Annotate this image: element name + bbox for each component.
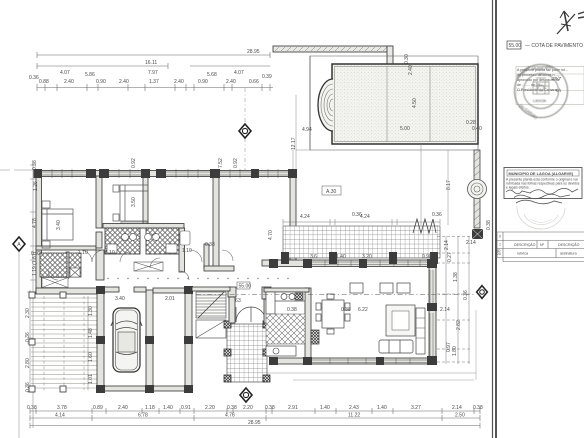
svg-text:1.26: 1.26 xyxy=(33,181,39,191)
wall stub below x96 wall xyxy=(96,232,102,248)
dining table xyxy=(316,294,350,334)
svg-text:1.30: 1.30 xyxy=(88,306,94,316)
certificate box behind stamp xyxy=(516,67,584,105)
pool deck outline xyxy=(310,56,478,150)
svg-text:0.36: 0.36 xyxy=(29,75,39,81)
svg-text:0.91: 0.91 xyxy=(181,405,191,411)
svg-text:e legais efeitos.: e legais efeitos. xyxy=(506,186,530,190)
south wall of left rooms xyxy=(36,288,104,294)
svg-text:6.22: 6.22 xyxy=(358,307,368,313)
svg-text:1.80: 1.80 xyxy=(452,346,458,356)
east fence xyxy=(474,150,480,228)
svg-text:— COTA DE PAVIMENTO: — COTA DE PAVIMENTO xyxy=(525,43,583,49)
svg-text:0.38: 0.38 xyxy=(205,242,215,248)
svg-text:2.43: 2.43 xyxy=(349,405,359,411)
svg-text:rubrica: rubrica xyxy=(517,252,528,256)
carport slats xyxy=(31,298,97,388)
svg-text:3.40: 3.40 xyxy=(115,296,125,302)
roof dotted line over entry band xyxy=(107,278,288,279)
top dimension chain xyxy=(37,52,273,91)
svg-text:0.38: 0.38 xyxy=(287,307,297,313)
svg-text:2.14: 2.14 xyxy=(452,405,462,411)
svg-text:Nº: Nº xyxy=(540,243,545,247)
svg-text:2.30: 2.30 xyxy=(25,308,31,318)
pool apse steps xyxy=(318,79,333,131)
faint stamp arc below xyxy=(517,206,565,229)
svg-text:5.00: 5.00 xyxy=(400,126,410,132)
svg-text:4.94: 4.94 xyxy=(302,127,312,133)
svg-text:0.40: 0.40 xyxy=(472,126,482,132)
svg-text:55.00: 55.00 xyxy=(509,43,522,49)
svg-text:1.37: 1.37 xyxy=(149,79,159,85)
svg-text:0: 0 xyxy=(499,235,501,239)
wardrobe X-box below baths xyxy=(134,262,163,271)
svg-text:0.89: 0.89 xyxy=(93,405,103,411)
wall x178-184 xyxy=(179,228,185,272)
svg-text:1.10: 1.10 xyxy=(78,250,88,256)
wall x143 bedroom2 left xyxy=(143,176,148,228)
bed bedroom1 xyxy=(42,201,73,248)
fence post dark xyxy=(472,229,483,239)
svg-text:20: 20 xyxy=(497,252,501,256)
svg-text:1.40: 1.40 xyxy=(336,254,346,260)
svg-text:0.66: 0.66 xyxy=(249,79,259,85)
top wall columns xyxy=(34,169,298,178)
title table xyxy=(497,232,584,262)
living rug/table xyxy=(386,305,415,336)
wall x213 xyxy=(213,176,219,268)
svg-text:11.22: 11.22 xyxy=(348,413,360,419)
car xyxy=(111,308,142,372)
side tables top xyxy=(380,283,393,293)
svg-text:2.80: 2.80 xyxy=(25,358,31,368)
svg-text:0.27: 0.27 xyxy=(447,252,453,262)
corridor door arcs xyxy=(48,250,233,280)
bathroom left hatch xyxy=(40,253,67,277)
marker node B bottom xyxy=(240,388,252,402)
svg-text:3.27: 3.27 xyxy=(411,405,421,411)
svg-text:4.14: 4.14 xyxy=(55,413,65,419)
svg-text:5.86: 5.86 xyxy=(85,72,95,78)
kitchen floor hatch xyxy=(266,314,305,344)
svg-text:0.38: 0.38 xyxy=(27,405,37,411)
carport posts xyxy=(29,292,66,392)
A.30 label xyxy=(322,186,341,195)
stairs xyxy=(196,292,226,318)
svg-text:4.50: 4.50 xyxy=(412,98,418,108)
closet hatch left2 xyxy=(69,253,81,277)
svg-text:1.38: 1.38 xyxy=(453,272,459,282)
svg-text:4.24: 4.24 xyxy=(360,214,370,220)
ramp below stairs xyxy=(196,320,226,338)
svg-text:2.14: 2.14 xyxy=(466,240,476,246)
svg-text:0.92: 0.92 xyxy=(233,158,239,168)
svg-text:1.10: 1.10 xyxy=(182,248,192,254)
pool dimension texts xyxy=(291,54,482,190)
pool xyxy=(318,64,478,144)
svg-text:assinatura: assinatura xyxy=(560,252,577,256)
cota de pavimento label xyxy=(507,41,521,49)
stamp crest xyxy=(533,75,549,94)
svg-text:3.50: 3.50 xyxy=(131,197,137,207)
shower X small xyxy=(70,268,80,277)
svg-text:0.98: 0.98 xyxy=(422,254,432,260)
svg-text:3.40: 3.40 xyxy=(56,220,62,230)
svg-text:8.17: 8.17 xyxy=(446,180,452,190)
sofa xyxy=(379,340,413,353)
svg-text:0.38: 0.38 xyxy=(265,405,275,411)
marker node B top xyxy=(239,124,251,138)
svg-text:1.40: 1.40 xyxy=(163,405,173,411)
svg-text:MUNICIPIO DE LAGOA (ALGARVE): MUNICIPIO DE LAGOA (ALGARVE) xyxy=(509,171,574,176)
svg-text:1: 1 xyxy=(499,243,501,247)
living top wall xyxy=(264,260,436,364)
svg-text:0.38: 0.38 xyxy=(227,405,237,411)
svg-text:4.76: 4.76 xyxy=(225,413,235,419)
svg-text:1.10: 1.10 xyxy=(105,250,115,256)
svg-text:16.11: 16.11 xyxy=(145,60,157,66)
fireplace xyxy=(311,330,319,344)
round stamp xyxy=(515,64,568,120)
svg-text:2.40: 2.40 xyxy=(226,79,236,85)
section line to right marker xyxy=(196,294,474,296)
entry double door xyxy=(236,307,266,322)
carport dashed verticals xyxy=(44,296,84,390)
svg-text:DESCRIÇÃO: DESCRIÇÃO xyxy=(514,242,536,247)
svg-text:DESCRIÇÃO: DESCRIÇÃO xyxy=(558,242,580,247)
north arrow xyxy=(557,11,584,34)
certificate text behind stamp xyxy=(517,68,568,92)
svg-text:4.70: 4.70 xyxy=(268,230,274,240)
svg-text:2.50: 2.50 xyxy=(455,413,465,419)
svg-text:2.82: 2.82 xyxy=(456,320,462,330)
stairs zigzag garden xyxy=(413,219,436,233)
dim extension lines mid xyxy=(0,88,448,438)
svg-text:0.36: 0.36 xyxy=(432,212,442,218)
svg-text:2.40: 2.40 xyxy=(174,79,184,85)
svg-text:2.01: 2.01 xyxy=(165,296,175,302)
svg-text:0.38: 0.38 xyxy=(341,307,351,313)
cabinet right xyxy=(416,308,425,354)
left vertical dim chain xyxy=(27,165,36,428)
svg-text:LAGOA: LAGOA xyxy=(533,99,547,103)
municipality box xyxy=(504,168,582,204)
wall x290 right of wing xyxy=(290,170,296,262)
entry hall walls xyxy=(192,287,271,323)
wardrobe X-box left wing xyxy=(42,278,68,288)
55.00 level box xyxy=(237,282,250,289)
svg-text:2.91: 2.91 xyxy=(288,405,298,411)
svg-text:2.20: 2.20 xyxy=(243,405,253,411)
marker node A left xyxy=(13,237,25,251)
courtyard posts xyxy=(224,321,270,382)
svg-text:1.60: 1.60 xyxy=(88,352,94,362)
svg-text:2.40: 2.40 xyxy=(119,79,129,85)
garage inner dim chain xyxy=(87,296,89,390)
svg-text:55.00: 55.00 xyxy=(239,284,252,290)
fountain xyxy=(468,180,487,199)
sinks in central bath xyxy=(107,234,177,253)
svg-text:1.01: 1.01 xyxy=(88,374,94,384)
svg-text:3.78: 3.78 xyxy=(57,405,67,411)
svg-text:0.90: 0.90 xyxy=(96,79,106,85)
svg-text:A.30: A.30 xyxy=(326,189,337,195)
svg-text:0.92: 0.92 xyxy=(131,158,137,168)
svg-text:1.48: 1.48 xyxy=(88,328,94,338)
svg-text:1.18: 1.18 xyxy=(145,405,155,411)
garden boundary wall top xyxy=(273,46,393,64)
bed bedroom2 xyxy=(113,185,148,221)
central bathroom hatch 2 xyxy=(146,228,179,254)
svg-text:7.52: 7.52 xyxy=(218,158,224,168)
wall x96 xyxy=(96,176,102,228)
living wall columns xyxy=(269,259,437,365)
top wall xyxy=(36,171,296,177)
svg-text:2.14: 2.14 xyxy=(440,307,450,313)
left wall xyxy=(36,171,42,294)
svg-text:0.38: 0.38 xyxy=(486,220,492,230)
svg-text:4.78: 4.78 xyxy=(32,218,38,228)
pergola top dim xyxy=(283,219,440,225)
south paving lines xyxy=(267,310,476,380)
svg-text:3.6: 3.6 xyxy=(310,254,317,260)
svg-text:2.20: 2.20 xyxy=(205,405,215,411)
svg-text:2.40: 2.40 xyxy=(408,65,414,75)
svg-text:0.38: 0.38 xyxy=(32,160,38,170)
toilet white xyxy=(180,231,190,245)
svg-text:0.36: 0.36 xyxy=(463,290,469,300)
svg-text:28.95: 28.95 xyxy=(248,420,261,426)
bath north wall xyxy=(103,224,184,229)
svg-text:0.88: 0.88 xyxy=(39,79,49,85)
corridor south walls left part xyxy=(36,246,96,250)
bath divider left xyxy=(66,252,69,278)
garage columns dark xyxy=(96,286,193,393)
central bathroom hatch 1 xyxy=(105,228,140,254)
svg-text:7.97: 7.97 xyxy=(148,70,158,76)
pergola posts xyxy=(281,252,438,264)
page edge double line xyxy=(493,0,497,438)
svg-text:28.95: 28.95 xyxy=(247,49,260,55)
wardrobe bedroom2 xyxy=(121,222,147,228)
svg-text:2.14: 2.14 xyxy=(444,240,450,250)
window mullion lines in top wall xyxy=(42,169,288,178)
svg-text:1.40: 1.40 xyxy=(320,405,330,411)
svg-text:4.07: 4.07 xyxy=(60,70,70,76)
garage walls xyxy=(97,287,192,392)
marker node right xyxy=(477,286,488,299)
right dim chain xyxy=(437,236,470,364)
courtyard grid xyxy=(227,324,267,382)
living window mullions xyxy=(312,260,433,365)
svg-text:1.19 (1.81): 1.19 (1.81) xyxy=(32,251,38,276)
svg-text:0.30: 0.30 xyxy=(404,54,410,64)
svg-text:0.90: 0.90 xyxy=(198,79,208,85)
svg-text:2.40: 2.40 xyxy=(64,79,74,85)
svg-text:5.68: 5.68 xyxy=(207,72,217,78)
svg-text:3.20: 3.20 xyxy=(362,254,372,260)
bottom dimension chains xyxy=(30,408,480,429)
handwriting xyxy=(506,188,578,203)
svg-text:6.78: 6.78 xyxy=(138,413,148,419)
kitchen lower counter xyxy=(266,346,296,356)
kitchen counters xyxy=(266,292,305,314)
svg-text:0.38: 0.38 xyxy=(473,405,483,411)
svg-text:0.39: 0.39 xyxy=(262,74,272,80)
svg-text:4.24: 4.24 xyxy=(300,214,310,220)
svg-text:1.40: 1.40 xyxy=(377,405,387,411)
corridor south wall right part xyxy=(204,244,209,268)
svg-text:2.40: 2.40 xyxy=(118,405,128,411)
svg-text:4.07: 4.07 xyxy=(234,70,244,76)
